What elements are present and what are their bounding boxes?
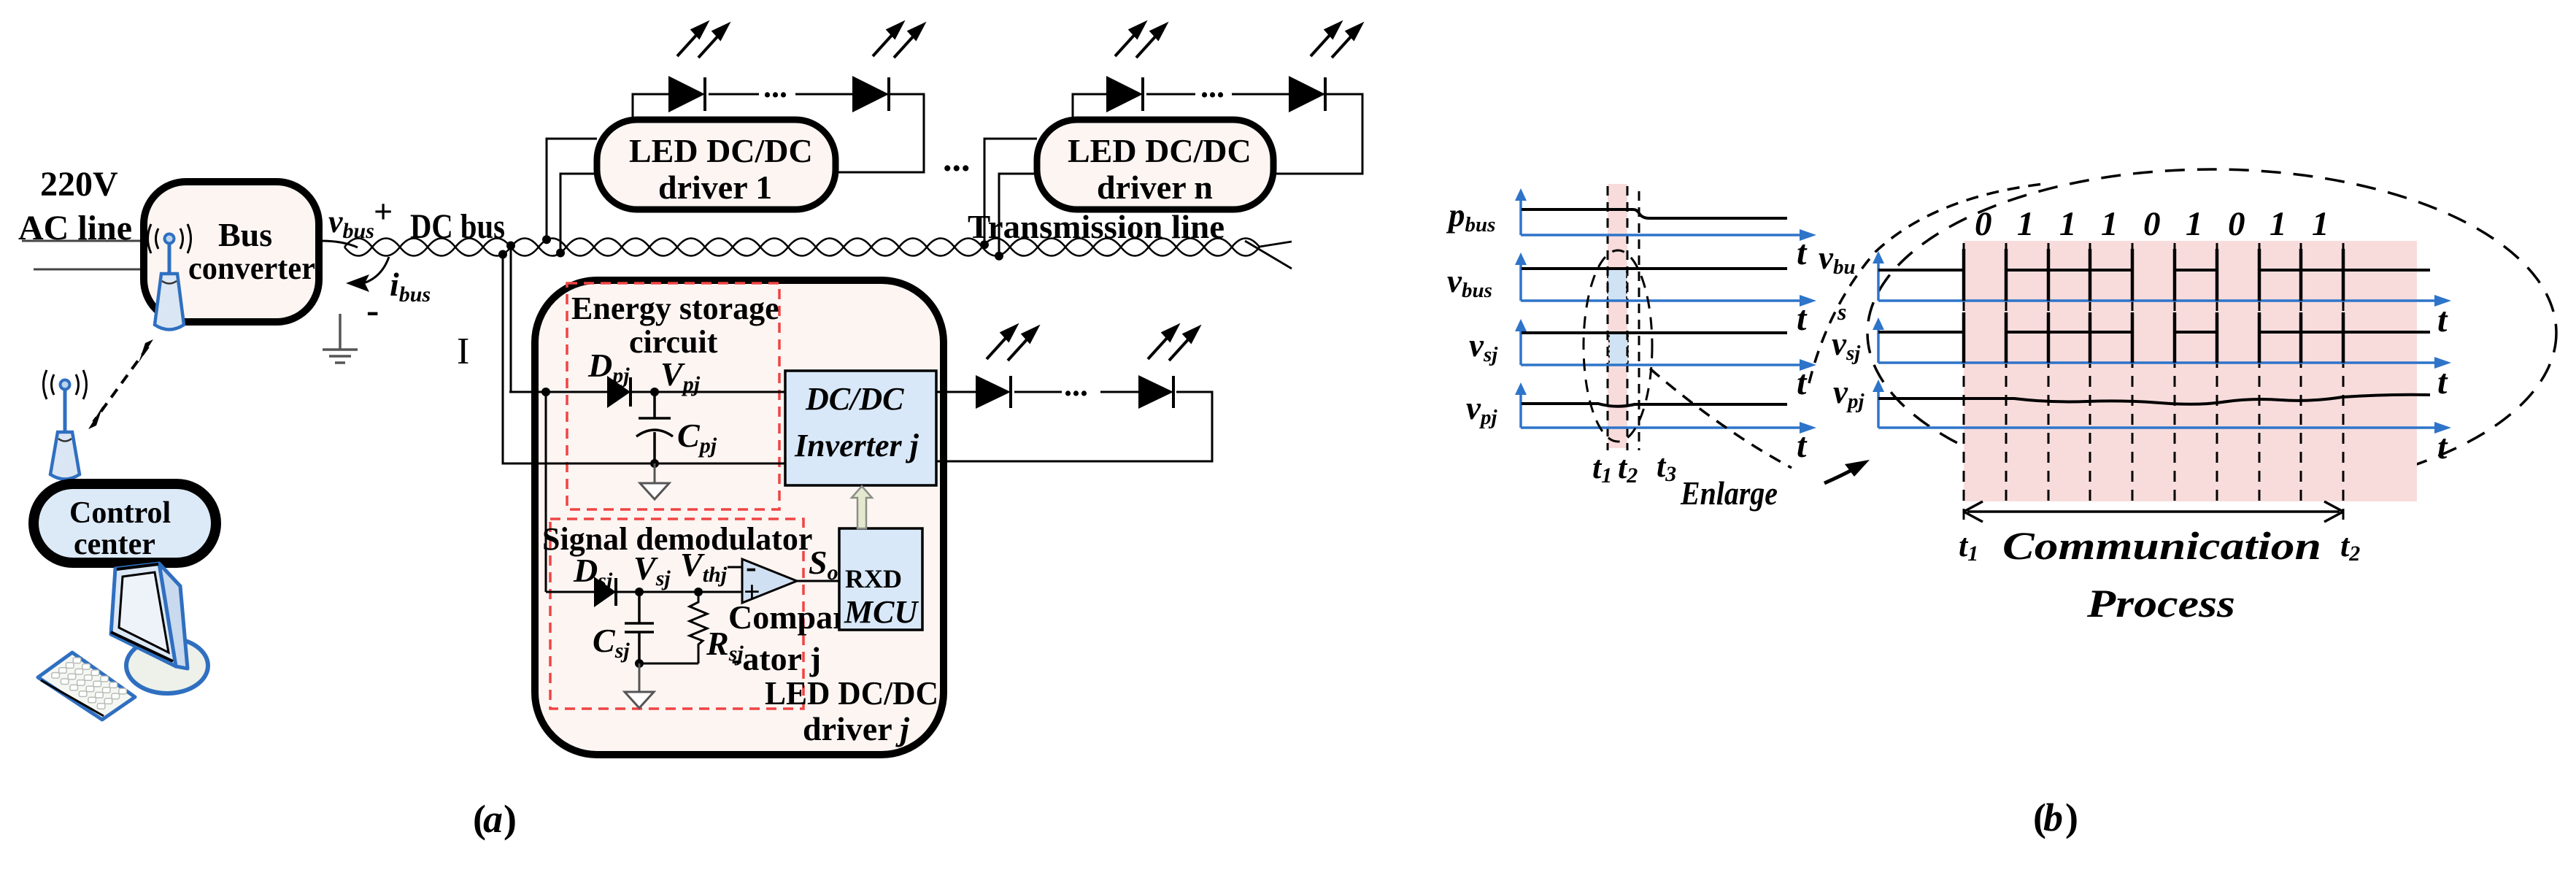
svg-text:t: t (2437, 363, 2448, 401)
computer: keyboard (38, 652, 135, 720)
wire bus to driver j (top rail) (511, 246, 568, 392)
dashed connector upper (1809, 184, 2043, 383)
node Cpj bottom (650, 459, 659, 468)
ground G2 (Cpj) (640, 463, 669, 499)
LED driver 1 block (597, 120, 836, 209)
svg-text:Control: Control (69, 496, 171, 530)
LED D1b (852, 76, 889, 112)
svg-text:circuit: circuit (629, 324, 718, 360)
big dashed ellipse (1867, 169, 2556, 496)
svg-text:t: t (1797, 426, 1808, 465)
wire bus to driver j (bottom rail) (503, 254, 656, 463)
grid line b6 (2216, 243, 2218, 501)
wire Csj-Rsj bottom (639, 663, 698, 665)
svg-text:b: b (2043, 796, 2063, 839)
twisted pair fork end (1260, 242, 1292, 247)
grid line b4 (2132, 243, 2134, 501)
small pane pink band (1608, 184, 1627, 448)
grid line b3 (2089, 243, 2091, 501)
big pane pink region (1964, 241, 2417, 501)
LED D1a (668, 76, 705, 112)
wire driver1 to bus (left) (547, 139, 597, 240)
svg-text:): ) (504, 797, 517, 841)
wire Vthj to comparator minus (728, 566, 742, 569)
node junction (top rail tap) (541, 388, 550, 396)
bottom rail wire (503, 463, 785, 465)
wire AC line upper (22, 240, 144, 242)
blue shaded cell vsj (1609, 334, 1628, 365)
svg-text:0: 0 (1975, 205, 1992, 243)
svg-text:1: 1 (2312, 205, 2329, 243)
svg-text:Energy storage: Energy storage (571, 290, 779, 326)
svg-text:Inverter j: Inverter j (794, 428, 919, 463)
enlarge dashed connector lower (1650, 369, 1792, 468)
svg-text:...: ... (1200, 69, 1225, 104)
waveform vpj small (1522, 404, 1787, 407)
enlarge arrow (1824, 467, 1857, 483)
node Vsj (635, 588, 644, 596)
svg-text:driver j: driver j (803, 710, 909, 747)
waveform vsj small (1522, 331, 1787, 334)
big pane axis vpj (1873, 380, 2451, 434)
diode Dpj (607, 376, 630, 408)
light arrows over Dna (1115, 23, 1165, 58)
small dashed ellipse (1584, 250, 1652, 442)
antenna A1 (on bus converter) (148, 224, 191, 330)
small pane axis vsj (1515, 319, 1816, 371)
wire tap down to demodulator (545, 392, 547, 592)
ground G3 (Csj) (625, 663, 654, 708)
waveform pbus (1522, 209, 1787, 218)
svg-text:DC/DC: DC/DC (805, 381, 904, 417)
node Vthj (694, 588, 703, 596)
grid line b5 (2174, 243, 2176, 501)
light arrows over D1a (677, 23, 728, 58)
twisted pair transmission line (344, 239, 1260, 256)
control center block (34, 484, 216, 563)
comb highs vbus (2006, 269, 2343, 272)
svg-text:a: a (483, 797, 503, 841)
comb verticals vbus (1964, 249, 2343, 301)
grid line b0 (1963, 243, 1965, 527)
svg-text:+: + (374, 193, 393, 230)
label 220V AC line (18, 165, 132, 247)
svg-text:0: 0 (2228, 205, 2245, 243)
wire comparator out to MCU (797, 580, 839, 582)
grid line b2 (2048, 243, 2050, 501)
resistor Rsj (690, 592, 707, 663)
LED Dna (1106, 76, 1143, 112)
signal demodulator dashed box (550, 519, 803, 709)
ibus arrow (346, 257, 431, 307)
wire driver n to bus (right) (999, 174, 1037, 256)
computer: monitor (111, 563, 208, 693)
demodulator rail (546, 591, 742, 593)
svg-text:0: 0 (2143, 205, 2161, 243)
light arrows over Djb (1148, 326, 1198, 361)
svg-text:1: 1 (2186, 205, 2203, 243)
light arrows over D1b (873, 23, 923, 58)
LED driver n block (1037, 120, 1273, 209)
LED string j wires (936, 391, 976, 393)
wire driver1 to bus (right) (560, 174, 597, 253)
svg-text:t: t (2437, 428, 2448, 466)
LED string 1 wire (633, 94, 668, 123)
svg-text:-ator j: -ator j (731, 640, 821, 677)
svg-text:): ) (2065, 796, 2078, 839)
wire bus converter to DC bus (321, 241, 358, 247)
light arrows over Dja (987, 326, 1037, 361)
svg-text:Enlarge: Enlarge (1680, 474, 1778, 512)
LED Dja (976, 375, 1011, 409)
waveform vsj flat pre (1878, 331, 1964, 334)
junction dots on bus (498, 235, 1003, 260)
big pane axis vsj (1873, 317, 2451, 369)
small pane axis pbus (1515, 188, 1816, 241)
node vbus label + polarity (328, 193, 393, 331)
svg-text:220V: 220V (40, 165, 118, 204)
small pane axis vbus (1515, 253, 1816, 307)
comb verticals vsj (1964, 312, 2343, 363)
svg-text:1: 1 (2270, 205, 2287, 243)
svg-text:1: 1 (2017, 205, 2035, 243)
svg-text:s: s (1837, 299, 1846, 325)
svg-text:I: I (457, 331, 469, 372)
bus converter U1 (144, 182, 319, 322)
LED DC/DC driver j block (535, 280, 944, 755)
big pane axis vbus (1873, 251, 2451, 307)
svg-text:1: 1 (2101, 205, 2118, 243)
light arrows over Dnb (1311, 23, 1361, 58)
wire driver n to bus (left) (984, 139, 1037, 245)
svg-text:Process: Process (2086, 582, 2235, 625)
grid line b7 (2259, 243, 2261, 501)
svg-text:Communication: Communication (2002, 524, 2321, 568)
ground G1 (bus converter) (323, 314, 358, 363)
dashed wireless link arrow (88, 339, 153, 429)
svg-text:...: ... (1064, 367, 1088, 403)
energy storage dashed box (567, 283, 779, 509)
svg-text:t: t (1797, 299, 1808, 338)
LED Dnb (1289, 76, 1325, 112)
MCU block (839, 528, 922, 630)
LED Djb (1138, 375, 1173, 409)
grid line b1 (2005, 243, 2008, 501)
antenna A2 (control center) (44, 370, 87, 480)
diode Dsj (594, 577, 616, 607)
communication arrow (1964, 501, 2343, 522)
svg-text:-: - (366, 290, 379, 331)
DC/DC inverter j block (785, 371, 936, 485)
comb highs vsj (2006, 331, 2343, 334)
capacitor Cpj (636, 392, 673, 463)
svg-text:driver 1: driver 1 (658, 169, 772, 206)
svg-text:driver n: driver n (1097, 169, 1213, 206)
top rail wire (509, 391, 785, 393)
svg-text:1: 1 (2059, 205, 2077, 243)
waveform vpj wavy (1878, 395, 2430, 404)
block arrow MCU to inverter (852, 486, 872, 528)
capacitor Csj (625, 592, 654, 663)
waveform vbus flat pre (1878, 269, 1964, 272)
node Vpj (650, 388, 659, 396)
svg-text:...: ... (943, 138, 971, 179)
svg-text:center: center (74, 528, 155, 561)
svg-text:t: t (1797, 363, 1808, 402)
svg-text:LED DC/DC: LED DC/DC (765, 674, 938, 712)
svg-text:MCU: MCU (844, 594, 919, 630)
waveform vsj flat post (2343, 331, 2430, 334)
svg-text:t: t (1797, 234, 1808, 272)
waveform vbus small (1522, 267, 1787, 270)
t3 dashed line (1638, 191, 1640, 450)
t2 dashed line (1627, 186, 1629, 450)
svg-text:converter: converter (188, 250, 315, 286)
small pane axis vpj (1515, 382, 1816, 434)
grid line b8 (2300, 243, 2302, 501)
waveform vbus flat post (2343, 269, 2430, 272)
blue shaded cell vbus (1608, 269, 1627, 301)
wire AC line lower (34, 269, 144, 271)
svg-text:RXD: RXD (845, 564, 902, 593)
svg-text:t: t (2437, 301, 2448, 339)
svg-text:Compar: Compar (728, 598, 848, 636)
grid line b9 (2342, 243, 2345, 527)
svg-text:...: ... (763, 69, 787, 104)
svg-text:LED DC/DC: LED DC/DC (629, 132, 813, 169)
svg-text:Bus: Bus (218, 216, 272, 253)
t1 dashed line (1607, 186, 1609, 450)
LED string n wire (1073, 94, 1106, 123)
svg-text:LED DC/DC: LED DC/DC (1068, 132, 1252, 169)
comparator U2 (742, 549, 797, 608)
